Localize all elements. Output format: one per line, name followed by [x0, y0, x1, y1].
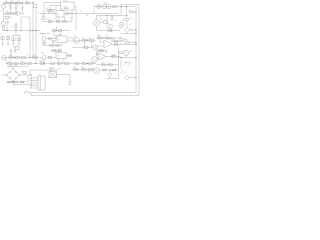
resistor R17 [124, 9, 128, 21]
wire from K1 [74, 6, 76, 31]
wire bridge top link [8, 67, 28, 69]
capacitor C5 [49, 5, 56, 13]
resistor R61 [113, 6, 117, 8]
node bridge top [12, 68, 13, 69]
resistor R64 [42, 17, 45, 22]
svg-text:47n: 47n [17, 6, 20, 8]
resistor R60 [112, 69, 116, 71]
label c2v [17, 6, 20, 8]
wire bot row [6, 75, 28, 82]
resistor R49 [14, 81, 18, 83]
resistor R59 [103, 69, 107, 71]
label d1t [131, 29, 133, 31]
wire rv col [126, 40, 128, 42]
wire row link [5, 58, 7, 64]
resistor R38 [82, 63, 86, 65]
svg-text:4k7: 4k7 [46, 8, 49, 10]
wire U2 out b [67, 40, 80, 41]
svg-text:NE555: NE555 [57, 51, 62, 53]
svg-text:LS: LS [115, 21, 117, 23]
label r21t [89, 38, 92, 40]
capacitor C15 [58, 30, 61, 37]
resistor R1 [5, 1, 9, 4]
resistor R36 [65, 63, 69, 65]
resistor R18 [43, 42, 46, 44]
wire bridge in [1, 74, 7, 76]
svg-text:M1: M1 [99, 17, 101, 19]
ic U3 [56, 53, 67, 59]
resistor R23 [84, 47, 88, 49]
resistor R33 [20, 63, 24, 65]
wire U7 out [112, 44, 137, 45]
svg-text:D1: D1 [131, 29, 133, 31]
bridge BR1 [7, 69, 20, 82]
wire bus C [35, 8, 36, 64]
wire row r1b [111, 40, 122, 42]
svg-text:U3: U3 [57, 56, 59, 58]
wire left branch [4, 9, 8, 31]
svg-text:R17: R17 [130, 18, 133, 20]
resistor R29 [33, 55, 37, 58]
label row2a [80, 11, 82, 13]
node n10 [120, 5, 121, 8]
node n17 [35, 63, 36, 64]
resistor R16 [107, 28, 112, 31]
label busa [25, 33, 26, 35]
label BR1 [10, 65, 18, 67]
wire mid-left bus [4, 30, 41, 32]
op-amp U7 [104, 40, 112, 48]
meter M1 [102, 4, 107, 9]
wire row2 long [40, 13, 118, 15]
svg-text:R16: R16 [107, 28, 110, 30]
wire U4 out [106, 56, 120, 58]
label diag [124, 62, 131, 66]
resistor R41 [114, 40, 118, 42]
ground G2 [14, 49, 17, 53]
fuse F1 [129, 9, 137, 13]
wire link right [120, 33, 137, 35]
label r42v [120, 37, 123, 39]
svg-text:V1: V1 [1, 11, 3, 13]
svg-text:RL1: RL1 [70, 18, 73, 20]
wire top link [30, 69, 58, 71]
label rv3v [130, 51, 133, 53]
resistor R34 [27, 63, 31, 65]
resistor R7 [12, 13, 16, 15]
wire drops c1 [85, 41, 92, 47]
label rm2 [107, 62, 109, 64]
svg-text:IN2: IN2 [42, 53, 45, 55]
label r45v [112, 54, 115, 56]
label c1v [8, 6, 11, 8]
resistor R42 [120, 38, 127, 41]
wire left stub c1 [43, 41, 45, 46]
wire row rm [120, 56, 137, 58]
svg-text:R29: R29 [33, 55, 36, 57]
svg-text:IN1: IN1 [42, 34, 45, 36]
resistor R3 [17, 1, 21, 4]
connector J1 [38, 74, 45, 90]
node n3 [22, 2, 23, 3]
node n2 [15, 2, 16, 3]
resistor R36a [51, 63, 55, 65]
svg-text:12V: 12V [58, 68, 61, 70]
pot RV1 [93, 45, 98, 50]
resistor R50 [74, 67, 79, 70]
label r39v [97, 35, 100, 37]
ground G3 [68, 80, 71, 85]
label t1v [49, 68, 53, 70]
motor M3 [93, 16, 99, 31]
capacitor C9 [17, 36, 20, 46]
resistor R66 [68, 55, 71, 57]
pin 5 [31, 88, 39, 89]
svg-text:100n: 100n [8, 6, 11, 8]
svg-text:TL071: TL071 [97, 52, 101, 54]
label r17t [130, 18, 133, 20]
capacitor C17 [50, 50, 62, 53]
wire row rm2 [96, 64, 119, 66]
label RL1 [70, 18, 73, 20]
svg-text:R2: R2 [11, 1, 13, 3]
svg-text:B250 C1500: B250 C1500 [10, 65, 18, 67]
capacitor C1 [9, 3, 11, 14]
wire top link2 [44, 3, 61, 12]
wire rail left stub [30, 93, 32, 96]
resistor R51 [82, 69, 86, 71]
capacitor C3 [21, 3, 23, 14]
svg-text:R6: R6 [6, 11, 8, 13]
resistor R32 [14, 63, 18, 65]
wire drop [93, 7, 95, 14]
resistor R26 [9, 55, 13, 58]
capacitor C2 [15, 3, 17, 14]
svg-text:K1: K1 [62, 8, 64, 10]
svg-text:22k: 22k [106, 35, 109, 37]
label r46v [101, 62, 104, 64]
resistor R43 [125, 42, 137, 44]
capacitor C8 [12, 36, 15, 46]
resistor R37 [75, 63, 79, 65]
diode D6 [107, 23, 113, 32]
wire cl link [52, 27, 70, 32]
svg-text:R26: R26 [9, 55, 12, 57]
label U2 top [55, 34, 62, 36]
op-amp U4 [99, 53, 107, 60]
resistor R46 [102, 64, 106, 66]
svg-text:10k: 10k [97, 35, 100, 37]
wire drops r1 [100, 38, 112, 42]
wire input top [3, 2, 34, 4]
svg-text:1N4148: 1N4148 [97, 49, 102, 51]
svg-text:U2: U2 [58, 39, 60, 41]
transducer B1 [119, 22, 124, 27]
op-amp U1 [17, 11, 24, 16]
resistor R12b [66, 13, 69, 15]
label row2b [86, 15, 89, 17]
diode D4 [124, 75, 136, 80]
capacitor C6 [0, 34, 4, 45]
wire row r1 [96, 37, 120, 39]
wire stub up [21, 17, 30, 31]
resistor R55 [50, 44, 54, 46]
label V1 [1, 11, 3, 13]
wire U2 out a [67, 37, 74, 39]
resistor R27 [15, 57, 19, 59]
resistor R8 [5, 16, 11, 19]
label r40v [106, 35, 109, 37]
resistor R49b [20, 81, 24, 83]
label bs2 [88, 71, 91, 73]
svg-text:1n5: 1n5 [113, 39, 116, 41]
svg-text:1k: 1k [80, 11, 82, 13]
capacitor C7 [6, 35, 9, 45]
wire T1 out [57, 75, 71, 81]
wire row L1 [2, 57, 42, 59]
svg-text:T1: T1 [50, 70, 52, 72]
svg-text:8R: 8R [129, 24, 131, 26]
label lrow1 [9, 61, 12, 63]
label u4v [97, 52, 101, 54]
node n12 [106, 15, 107, 28]
svg-text:R9: R9 [12, 26, 14, 28]
svg-text:C10: C10 [22, 71, 25, 73]
svg-text:10k: 10k [130, 51, 133, 53]
motor M5 [94, 68, 100, 74]
resistor R48 [8, 81, 12, 83]
node n15 [32, 57, 33, 58]
ic U6 [56, 11, 64, 18]
svg-text:R4: R4 [26, 1, 28, 3]
node n4 [6, 30, 7, 31]
node n16 [14, 57, 15, 58]
pin 4 [31, 85, 39, 86]
svg-text:k2: k2 [38, 13, 40, 15]
wire to R5 [32, 2, 34, 4]
wire bridge vert [29, 70, 31, 75]
resistor R62 [100, 21, 108, 23]
wire bridge bot [13, 82, 32, 85]
node n6 [20, 30, 21, 31]
wire fb [97, 51, 108, 55]
wire bs row [72, 69, 93, 71]
svg-text:4n7: 4n7 [39, 61, 42, 63]
wire to K1 [56, 5, 61, 10]
label U3 top [57, 51, 62, 53]
label lrow2 [21, 61, 24, 63]
label lrow4 [39, 61, 42, 63]
resistor R31 [7, 63, 11, 65]
svg-text:4k7: 4k7 [120, 37, 123, 39]
svg-text:22k: 22k [9, 61, 12, 63]
svg-text:C6: C6 [0, 34, 2, 36]
relay K1 [61, 2, 75, 10]
resistor R36b [58, 63, 62, 65]
node n19 [87, 63, 88, 64]
label r41v [113, 39, 116, 41]
wire row c1 under [44, 43, 62, 46]
resistor R40 [106, 37, 110, 39]
resistor R4 [25, 1, 29, 4]
wire U3 drops [59, 56, 73, 64]
svg-text:R1: R1 [5, 1, 7, 3]
wire V+ rail top/right/bottom [31, 5, 139, 96]
svg-text:R3: R3 [17, 1, 19, 3]
capacitor C10 [22, 71, 27, 75]
resistor R21 [82, 38, 87, 41]
resistor R10 [46, 8, 51, 13]
label d2v [97, 49, 102, 51]
svg-text:10k: 10k [21, 61, 24, 63]
wire row y15 [97, 15, 128, 16]
label ind [120, 57, 126, 74]
capacitor C16 [52, 50, 55, 53]
capacitor C13 [63, 17, 66, 23]
resistor R39 [98, 36, 103, 39]
wire pin riser [30, 75, 32, 88]
resistor R52 [89, 68, 94, 70]
svg-text:1k: 1k [27, 55, 29, 57]
diode D3 [108, 70, 112, 78]
resistor R44 [100, 50, 104, 52]
pot RV2 [92, 57, 98, 64]
label IC1 [46, 19, 57, 21]
wire in U4 [96, 55, 99, 58]
svg-text:K1 12V: K1 12V [63, 1, 68, 3]
label sig [24, 91, 31, 95]
svg-text:2k2: 2k2 [89, 38, 92, 40]
wire cl row2 [44, 21, 73, 23]
svg-text:7812: 7812 [53, 19, 57, 21]
svg-text:X1: X1 [39, 74, 41, 76]
label br1 [8, 66, 12, 68]
capacitor C14 [52, 30, 55, 37]
meter M4 [74, 37, 80, 43]
svg-text:R8: R8 [10, 17, 12, 19]
wire U7 in+ [100, 41, 104, 43]
resistor R45 [112, 56, 116, 58]
svg-text:+: + [100, 57, 101, 59]
svg-text:47k: 47k [101, 62, 104, 64]
node n14 [29, 57, 30, 58]
node n20 [103, 37, 104, 38]
wire U7 in- [96, 45, 104, 47]
node n21 [111, 37, 112, 38]
resistor R56 [56, 44, 60, 46]
label t1w [58, 68, 61, 70]
source V3 [2, 56, 6, 60]
diode D1 [124, 21, 136, 33]
wire bridge out [20, 74, 32, 75]
wire row L2 [6, 63, 96, 65]
svg-text:220V: 220V [104, 3, 108, 5]
wire bus B [32, 2, 33, 58]
label K1 [63, 1, 68, 3]
resistor R19 [48, 38, 51, 40]
ic U2 [57, 36, 67, 43]
lamp LA1 [97, 4, 101, 8]
wire br drop [118, 65, 120, 79]
label lrow3 [27, 55, 29, 57]
node bridge left [6, 74, 7, 75]
pin 3 [31, 83, 39, 84]
resistor R35 [40, 61, 44, 64]
source V2 [2, 21, 11, 26]
wire V- rail top/right/bottom [31, 7, 136, 93]
source IN1 [42, 34, 47, 41]
node n5 [15, 30, 16, 31]
resistor R6 [6, 11, 10, 14]
node n1 [10, 2, 11, 3]
node n11 [126, 6, 128, 9]
resistor R22 [89, 39, 94, 41]
wire drop rm [118, 46, 119, 65]
svg-text:R50: R50 [74, 67, 77, 69]
capacitor C12 [56, 17, 59, 23]
wire row y30 [97, 30, 121, 32]
wire deco link [12, 30, 21, 36]
label m4t [74, 34, 76, 37]
wire row c1 [79, 39, 96, 41]
pot RV3 [123, 50, 129, 56]
diode D7 [42, 12, 46, 17]
node n13 [86, 40, 87, 41]
svg-text:LM311: LM311 [58, 34, 63, 36]
resistor R11 [51, 9, 54, 13]
label m1t [104, 3, 108, 5]
wire bs2 row [100, 69, 119, 70]
wire bs2 low [106, 77, 119, 79]
resistor R47 [109, 64, 113, 66]
transformer T1 [49, 72, 57, 78]
node n22 [111, 56, 112, 57]
wire k1 bus2 [71, 11, 73, 22]
capacitor C11 [48, 19, 51, 23]
resistor R15 [111, 16, 113, 20]
resistor R28 [21, 57, 25, 59]
wire bus link [40, 31, 50, 34]
wire lamp row [93, 6, 127, 8]
wire bus A [29, 17, 30, 58]
label M3 [99, 17, 103, 21]
svg-text:R21: R21 [82, 38, 85, 40]
svg-text:L1: L1 [121, 69, 123, 71]
label b1t [115, 21, 131, 26]
label bs1 [81, 67, 85, 69]
wire second row [4, 13, 18, 15]
node bridge bot [12, 81, 13, 82]
resistor R63 [119, 51, 122, 53]
source V1 [2, 3, 6, 9]
wire drop2 [120, 7, 122, 16]
wire in1 [46, 38, 57, 39]
svg-text:78L05: 78L05 [13, 47, 17, 49]
resistor R9 [3, 26, 5, 31]
resistor R5 [34, 5, 40, 15]
resistor RV5 [12, 23, 17, 31]
pin 1 [31, 78, 39, 79]
wire rv2 col [96, 52, 98, 57]
pin 2 [31, 80, 39, 81]
source IN2 [42, 53, 47, 60]
resistor R65 [114, 44, 118, 46]
ground G1 [10, 49, 13, 58]
svg-text:100R: 100R [112, 54, 115, 56]
resistor R2 [11, 1, 15, 4]
regulator U5 [13, 47, 19, 50]
meter M2 [106, 4, 111, 9]
